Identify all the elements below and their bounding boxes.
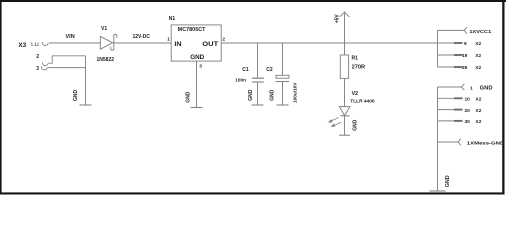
svg-text:1_1,1: 1_1,1 [31, 41, 39, 46]
LED V2 emission arrow 1 [329, 117, 342, 126]
connector X2 pin 29 symbol [454, 66, 463, 68]
wire pin row 19 [438, 54, 455, 56]
frame bottom border [0, 192, 505, 194]
wire pin row 10 [438, 97, 455, 99]
svg-text:V2: V2 [352, 91, 359, 97]
svg-text:GND: GND [186, 91, 192, 103]
svg-text:C1: C1 [242, 67, 249, 73]
svg-text:N1: N1 [169, 16, 176, 22]
svg-text:3: 3 [36, 66, 39, 72]
wire N1 pin3 to ground [196, 61, 198, 108]
connector X2 pin 1XVCC1 chevron [464, 27, 467, 34]
svg-text:GND: GND [190, 54, 204, 61]
wire X3 pin3 to junction [47, 67, 85, 69]
connector X2 pin 30 symbol [454, 120, 463, 122]
svg-text:9: 9 [464, 41, 467, 47]
svg-text:1N5822: 1N5822 [97, 57, 115, 63]
wire X3 ground drop [85, 56, 87, 105]
wire +5V rail: N1 OUT to right connector bus [221, 42, 437, 44]
svg-text:GND: GND [480, 85, 493, 91]
capacitor C2 minus plate [276, 81, 290, 83]
ground symbol V2 [339, 134, 350, 136]
resistor R1 box [340, 55, 348, 78]
frame right border [502, 0, 504, 195]
svg-text:C2: C2 [266, 67, 273, 73]
wire pin row 9 [438, 42, 455, 44]
ground symbol C2 [277, 104, 289, 106]
svg-text:X2: X2 [476, 119, 482, 125]
svg-text:GND: GND [445, 175, 451, 187]
wire pin row 20 [438, 109, 455, 111]
diode V1 schottky cathode bar [111, 34, 117, 50]
svg-text:100n: 100n [235, 77, 246, 82]
ground symbol C1 [252, 104, 264, 106]
svg-text:20: 20 [465, 108, 471, 114]
svg-text:1XMess-GND: 1XMess-GND [467, 141, 505, 147]
svg-text:100u/16V: 100u/16V [292, 82, 297, 103]
ground symbol N1 [191, 107, 203, 109]
svg-text:2: 2 [222, 37, 225, 43]
svg-text:1: 1 [167, 37, 170, 43]
IC N1 box [171, 25, 221, 61]
ground symbol X2 [430, 190, 446, 192]
wire pin row 1XMess-GND [438, 141, 459, 143]
svg-text:X2: X2 [475, 41, 481, 47]
supply +5V arrow [340, 12, 350, 17]
connector X2 pin 9 symbol [454, 42, 463, 44]
svg-text:X2: X2 [475, 53, 481, 59]
wire pin row 1 GND [438, 86, 462, 88]
capacitor C2 plus plate [276, 75, 289, 78]
svg-text:270R: 270R [352, 64, 366, 70]
svg-text:VIN: VIN [66, 34, 75, 40]
svg-text:IN: IN [174, 41, 181, 48]
svg-text:TLLR 4400: TLLR 4400 [350, 98, 375, 104]
wire bottom connector bus [437, 87, 439, 191]
connector X2 pin 1 GND chevron [462, 84, 465, 91]
svg-text:GND: GND [270, 89, 276, 101]
wire 12V-DC rail: diode cathode to N1 IN [114, 42, 171, 44]
wire pin row 29 [438, 66, 455, 68]
wire VIN rail: X3 pin1 to diode anode [49, 42, 100, 44]
svg-text:30: 30 [465, 119, 471, 125]
svg-text:X2: X2 [476, 97, 482, 103]
wire pin row 1XVCC1 [438, 29, 465, 31]
wire +5V arrow stem to R1 [344, 12, 346, 55]
connector X2 pin 20 symbol [454, 109, 463, 111]
svg-text:19: 19 [462, 53, 468, 59]
wire top connector bus [437, 30, 439, 67]
svg-text:29: 29 [462, 65, 468, 71]
ground symbol X3 [80, 104, 92, 106]
svg-text:GND: GND [248, 89, 254, 101]
connector X2 pin 10 symbol [454, 97, 463, 99]
wire LED to ground [344, 116, 346, 135]
wire C1 bottom [257, 82, 259, 105]
connector X3 pin 2 hook [42, 62, 48, 65]
wire C1 top [257, 43, 259, 78]
svg-text:3: 3 [199, 63, 202, 69]
wire C2 bottom [282, 82, 284, 105]
svg-text:X2: X2 [476, 108, 482, 114]
svg-text:V1: V1 [101, 26, 107, 32]
svg-text:GND: GND [353, 119, 359, 131]
frame left border [0, 0, 2, 195]
LED V2 cathode bar [340, 115, 349, 117]
svg-text:1: 1 [470, 85, 473, 91]
svg-text:12V-DC: 12V-DC [133, 34, 151, 40]
svg-text:10: 10 [465, 97, 471, 103]
svg-text:2: 2 [36, 54, 39, 60]
svg-text:X3: X3 [18, 42, 26, 49]
connector X3 pin 3 hook [41, 67, 47, 70]
svg-text:1XVCC1: 1XVCC1 [469, 29, 491, 35]
wire C2 top [282, 43, 284, 75]
LED V2 emission arrow 2 [334, 122, 342, 126]
svg-text:MC7805CT: MC7805CT [178, 27, 207, 33]
capacitor C1 plates [252, 78, 264, 82]
diode V1 body [100, 36, 112, 49]
svg-text:OUT: OUT [202, 41, 219, 48]
connector X2 pin 1XMess-GND chevron [458, 139, 461, 146]
svg-text:R1: R1 [352, 56, 359, 62]
frame top border [0, 0, 506, 2]
wire X3 pin2 to junction [48, 56, 85, 63]
connector X2 pin 19 symbol [454, 54, 463, 56]
wire pin row 30 [438, 120, 455, 122]
LED V2 body [339, 107, 350, 116]
wire R1 to LED [344, 78, 346, 106]
connector X3 pin 1_1,1 hook [42, 42, 48, 45]
svg-text:+5V: +5V [335, 14, 341, 24]
svg-text:GND: GND [73, 90, 79, 102]
svg-text:X2: X2 [475, 65, 481, 71]
